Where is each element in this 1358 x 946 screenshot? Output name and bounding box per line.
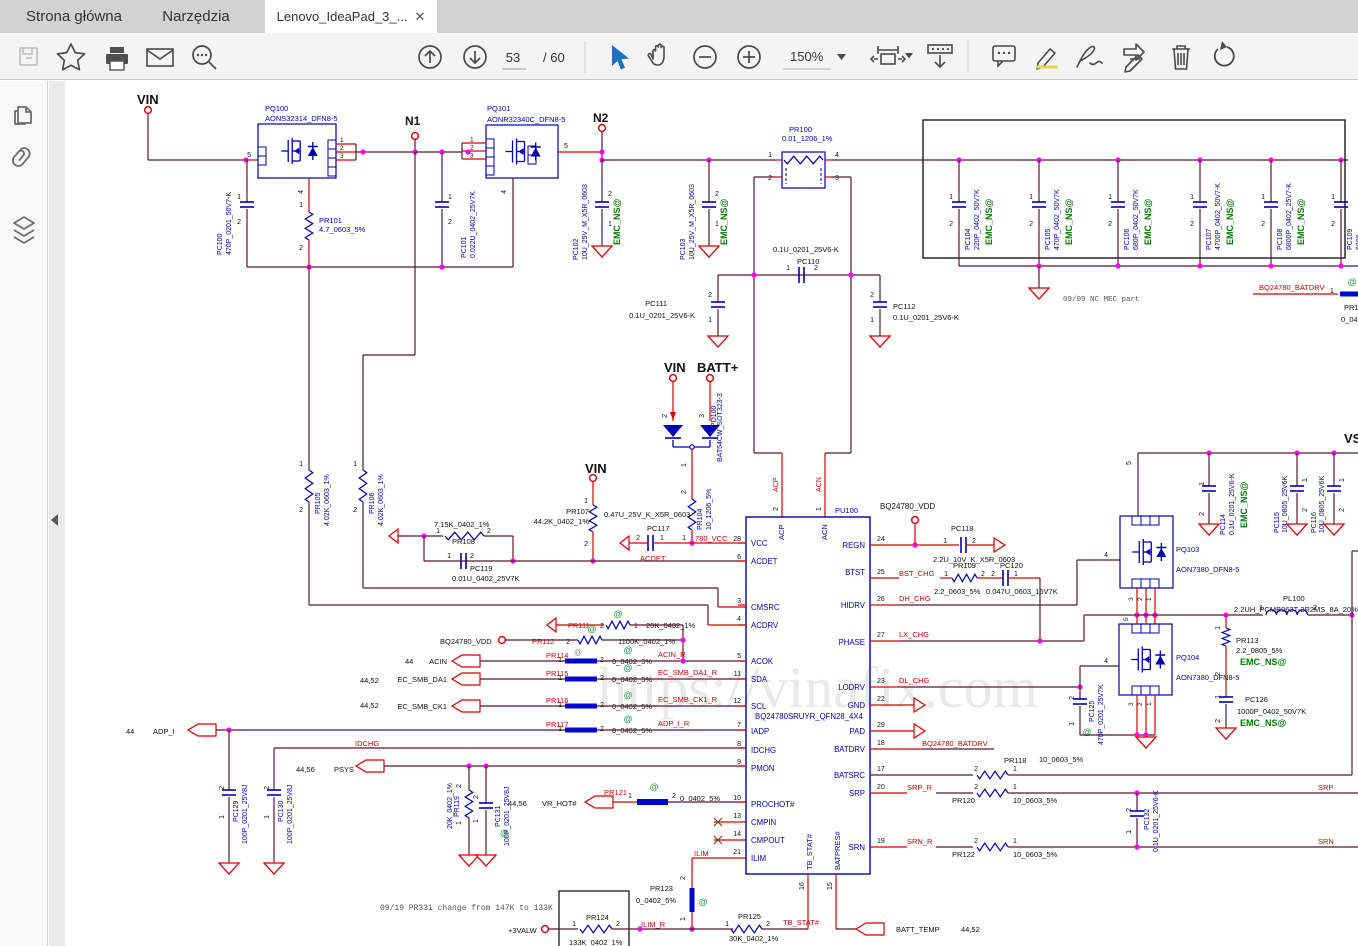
svg-text:AON7380_DFN8-5: AON7380_DFN8-5 [1176,673,1239,682]
svg-text:6800P_0402_25V7-K: 6800P_0402_25V7-K [1286,183,1293,250]
svg-text:SRP: SRP [1318,783,1333,792]
svg-text:PC102: PC102 [573,238,580,260]
svg-text:ACIN_R: ACIN_R [658,650,686,659]
svg-text:AONR32340C_DFN8-5: AONR32340C_DFN8-5 [487,115,565,124]
svg-text:PQ103: PQ103 [1176,545,1199,554]
svg-text:SDA: SDA [751,675,768,684]
svg-text:EMC_NS@: EMC_NS@ [1240,718,1287,728]
svg-text:BQ24780_VDD: BQ24780_VDD [880,502,935,511]
svg-text:BATT+: BATT+ [697,360,739,375]
svg-text:2: 2 [264,786,271,790]
svg-text:12: 12 [733,698,741,705]
svg-text:AONS32314_DFN8-5: AONS32314_DFN8-5 [265,114,338,123]
svg-text:4: 4 [298,190,305,194]
svg-text:PMON: PMON [751,764,774,773]
svg-text:ACDET: ACDET [751,557,778,566]
svg-text:PQ100: PQ100 [265,104,288,113]
svg-text:0_0402: 0_0402 [1341,315,1358,324]
svg-text:ACP: ACP [773,477,780,492]
svg-text:2: 2 [974,838,978,845]
svg-text:1: 1 [1014,571,1018,578]
svg-text:@: @ [574,648,582,657]
svg-text:EC_SMB_CK1: EC_SMB_CK1 [397,702,447,711]
svg-text:EMC_NS@: EMC_NS@ [612,198,622,245]
svg-text:PR122: PR122 [952,850,975,859]
svg-text:1: 1 [680,917,687,921]
svg-text:2: 2 [773,507,780,511]
svg-text:ILIM: ILIM [751,854,766,863]
svg-text:LODRV: LODRV [838,683,866,692]
svg-text:10_0603_5%: 10_0603_5% [1013,850,1058,859]
svg-text:4: 4 [737,616,741,623]
svg-text:1: 1 [682,535,686,542]
svg-text:DH_CHG: DH_CHG [899,594,931,603]
svg-text:0.1U_0201_25V6-K: 0.1U_0201_25V6-K [893,313,959,322]
svg-text:44: 44 [405,657,413,666]
svg-text:1: 1 [558,702,562,709]
svg-text:16: 16 [799,882,806,890]
svg-text:PAD: PAD [850,727,866,736]
svg-text:SRP: SRP [849,789,865,798]
svg-text:1: 1 [1069,722,1076,726]
svg-text:4: 4 [501,190,508,194]
svg-text:PR113: PR113 [1236,636,1258,645]
svg-text:PC130: PC130 [278,800,285,822]
svg-text:EMC_NS@: EMC_NS@ [1296,198,1306,245]
svg-text:SCL: SCL [751,702,767,711]
svg-text:3: 3 [1128,597,1135,601]
svg-text:1: 1 [725,921,729,928]
svg-text:2: 2 [470,553,474,560]
svg-text:4.7_0603_5%: 4.7_0603_5% [319,225,366,234]
svg-text:2: 2 [708,292,712,299]
svg-text:2: 2 [1069,696,1076,700]
svg-text:BAT54CW_SOT323-3: BAT54CW_SOT323-3 [717,393,724,462]
svg-text:1: 1 [1199,482,1206,486]
svg-text:PR124: PR124 [586,913,609,922]
svg-text:EC_SMB_DA1_R: EC_SMB_DA1_R [658,668,718,677]
svg-text:470P_0201_25V7K: 470P_0201_25V7K [1098,684,1105,745]
svg-text:6: 6 [737,554,741,561]
svg-text:SRN_R: SRN_R [907,837,933,846]
svg-text:1: 1 [708,317,712,324]
svg-text:1: 1 [786,265,790,272]
svg-text:2.2_0805_5%: 2.2_0805_5% [1236,646,1283,655]
svg-text:PR123: PR123 [650,884,673,893]
svg-text:@: @ [699,897,708,907]
svg-text:1: 1 [1302,478,1309,482]
svg-text:10_0603_5%: 10_0603_5% [1039,755,1084,764]
svg-text:2: 2 [1313,605,1317,612]
svg-text:BATDRV: BATDRV [834,745,866,754]
svg-text:PC114: PC114 [1220,514,1227,535]
svg-text:1: 1 [949,194,953,201]
svg-text:4: 4 [835,152,839,159]
svg-text:10_1206_5%: 10_1206_5% [706,489,713,530]
svg-text:REGN: REGN [842,541,865,550]
svg-text:100P_0201_25V8J: 100P_0201_25V8J [287,784,294,844]
svg-text:BQ24780SRUYR_QFN28_4X4: BQ24780SRUYR_QFN28_4X4 [755,712,864,721]
svg-text:1: 1 [473,819,480,823]
svg-text:1: 1 [1190,194,1194,201]
svg-text:7: 7 [737,722,741,729]
svg-text:44,52: 44,52 [961,925,980,934]
svg-text:PC100: PC100 [217,233,224,255]
svg-text:44: 44 [126,727,134,736]
svg-text:5: 5 [1123,617,1130,621]
svg-text:10U_25V_M_X5R_0603: 10U_25V_M_X5R_0603 [582,184,589,260]
svg-text:1: 1 [816,507,823,511]
svg-text:PQ104: PQ104 [1176,653,1199,662]
svg-text:1: 1 [237,194,241,201]
svg-text:0.1U_0201_25V6-K: 0.1U_0201_25V6-K [1153,790,1160,852]
svg-text:ILIM: ILIM [694,849,709,858]
svg-text:N2: N2 [593,111,609,125]
svg-text:1000P_0402_50V7K: 1000P_0402_50V7K [1237,707,1306,716]
svg-text:PC108: PC108 [1277,228,1284,250]
svg-text:26: 26 [877,596,885,603]
svg-text:PR119: PR119 [454,796,461,817]
svg-text:AON7380_DFN8-5: AON7380_DFN8-5 [1176,565,1239,574]
svg-text:0.1U_0201_25V6-K: 0.1U_0201_25V6-K [773,245,839,254]
svg-text:44,56: 44,56 [508,799,527,808]
svg-text:8: 8 [737,741,741,748]
svg-text:PC101: PC101 [461,236,468,258]
svg-text:1: 1 [447,553,451,560]
svg-text:BQ24780_VDD: BQ24780_VDD [440,637,492,646]
svg-text:PC118: PC118 [951,524,973,533]
svg-text:470P_0201_50V7-K: 470P_0201_50V7-K [226,192,233,255]
svg-text:2: 2 [608,191,612,198]
svg-text:PR112: PR112 [532,637,554,646]
svg-text:@: @ [1348,277,1357,287]
svg-text:25: 25 [877,569,885,576]
svg-text:EMC_NS@: EMC_NS@ [1143,198,1153,245]
svg-text:22: 22 [877,696,885,703]
svg-text:2: 2 [448,219,452,226]
svg-text:2: 2 [974,766,978,773]
svg-text:PR101: PR101 [319,216,342,225]
svg-text:ACP: ACP [777,525,786,540]
svg-text:EMC_NS@: EMC_NS@ [719,198,729,245]
svg-text:PC112: PC112 [893,302,915,311]
svg-text:BATPRES#: BATPRES# [833,831,842,870]
svg-text:PC107: PC107 [1206,228,1213,250]
svg-text:780_VCC: 780_VCC [695,534,728,543]
svg-text:PC131: PC131 [495,805,502,827]
svg-text:10_0603_5%: 10_0603_5% [1013,796,1058,805]
svg-text:1: 1 [943,538,947,545]
svg-text:4700P_0402_50V7-K: 4700P_0402_50V7-K [1215,183,1222,250]
svg-text:470P_0402_50V7K: 470P_0402_50V7K [1054,189,1061,250]
svg-text:2: 2 [237,219,241,226]
svg-text:44.2K_0402_1%: 44.2K_0402_1% [534,517,590,526]
svg-text:PR111: PR111 [568,621,590,630]
svg-text:2: 2 [1261,221,1265,228]
svg-text:PC132: PC132 [1144,808,1151,830]
svg-text:11: 11 [734,671,741,678]
svg-text:2: 2 [672,793,676,800]
svg-text:ACDET: ACDET [640,554,666,563]
svg-text:EMC_NS@: EMC_NS@ [984,198,994,245]
svg-text:VIN: VIN [664,360,686,375]
svg-text:5: 5 [247,152,251,159]
svg-text:PQ101: PQ101 [487,104,510,113]
svg-text:HIDRV: HIDRV [841,601,866,610]
svg-text:VCC: VCC [751,539,768,548]
svg-text:15: 15 [827,882,834,890]
svg-text:PC125: PC125 [1089,700,1096,722]
svg-text:PR104: PR104 [697,508,704,530]
svg-text:1: 1 [299,461,303,468]
svg-text:PR105: PR105 [315,492,322,514]
svg-text:0.022U_0402_25V7K: 0.022U_0402_25V7K [470,191,477,258]
svg-text:PR109: PR109 [953,561,976,570]
svg-text:0.1U_0201_25V6-K: 0.1U_0201_25V6-K [629,311,695,320]
svg-text:PC120: PC120 [1000,561,1023,570]
svg-text:1: 1 [1013,838,1017,845]
svg-text:IADP: IADP [751,727,769,736]
svg-text:TB_STAT#: TB_STAT# [805,833,814,870]
svg-text:LX_CHG: LX_CHG [899,630,929,639]
svg-text:3: 3 [835,175,839,182]
svg-text:2: 2 [1029,221,1033,228]
svg-text:PR118: PR118 [1004,756,1026,765]
svg-text:23: 23 [877,678,885,685]
svg-text:@: @ [614,609,623,619]
svg-text:@: @ [624,714,633,724]
svg-text:CMSRC: CMSRC [751,603,780,612]
svg-text:2: 2 [991,571,995,578]
svg-text:/ 60: / 60 [543,50,565,65]
svg-text:19: 19 [877,838,885,845]
svg-text:1: 1 [264,815,271,819]
svg-text:24: 24 [877,536,885,543]
svg-text:5: 5 [737,653,741,660]
svg-text:2: 2 [353,507,357,514]
svg-text:@: @ [624,663,633,673]
svg-text:2: 2 [600,623,604,630]
svg-text:1: 1 [558,657,562,664]
svg-text:2: 2 [584,541,588,548]
svg-text:@: @ [500,828,509,838]
svg-text:09/09 NC MEC part: 09/09 NC MEC part [1063,296,1140,304]
svg-text:3: 3 [1128,702,1135,706]
svg-text:PC109: PC109 [1347,228,1354,250]
svg-text:EMC_NS@: EMC_NS@ [1239,481,1249,528]
svg-text:BQ24780_BATDRV: BQ24780_BATDRV [922,739,988,748]
svg-text:ADP_I_R: ADP_I_R [658,719,690,728]
svg-text:10U_0805_25V6K: 10U_0805_25V6K [1282,475,1289,533]
svg-text:1: 1 [1013,784,1017,791]
svg-text:2: 2 [219,786,226,790]
svg-text:2: 2 [974,784,978,791]
svg-text:PROCHOT#: PROCHOT# [751,800,795,809]
svg-text:PC110: PC110 [797,257,819,266]
svg-text:2: 2 [473,795,480,799]
svg-text:PC103: PC103 [680,238,687,260]
svg-text:4: 4 [1104,658,1108,665]
svg-text:PR110: PR110 [1344,303,1358,312]
svg-text:1: 1 [219,815,226,819]
svg-text:N1: N1 [405,114,421,128]
svg-text:1: 1 [1146,702,1153,706]
svg-text:PC111: PC111 [645,299,667,308]
svg-text:1: 1 [944,571,948,578]
svg-text:1: 1 [768,152,772,159]
svg-text:10U_25V_M_X5R_0603: 10U_25V_M_X5R_0603 [689,184,696,260]
svg-text:14: 14 [733,831,741,838]
svg-text:150%: 150% [790,49,824,64]
svg-text:21: 21 [733,849,741,856]
svg-text:20K_0402_1%: 20K_0402_1% [447,783,454,829]
svg-text:44,52: 44,52 [360,701,379,710]
svg-text:1: 1 [584,498,588,505]
svg-text:2: 2 [299,507,303,514]
svg-text:3: 3 [699,414,706,418]
svg-text:2: 2 [1137,597,1144,601]
svg-text:PU100: PU100 [835,506,858,515]
svg-text:PC106: PC106 [1124,228,1131,250]
svg-text:2: 2 [1126,808,1133,812]
svg-text:SRP_R: SRP_R [907,783,933,792]
svg-text:1: 1 [1013,766,1017,773]
svg-text:VIN: VIN [585,461,607,476]
svg-text:IDCHG: IDCHG [751,746,776,755]
svg-text:133K_0402_1%: 133K_0402_1% [569,938,623,946]
svg-text:2: 2 [340,145,344,152]
svg-text:PC117: PC117 [647,524,669,533]
svg-text:ACDRV: ACDRV [751,621,779,630]
svg-text:BATT_TEMP: BATT_TEMP [896,925,940,934]
svg-text:2: 2 [715,191,719,198]
svg-text:4: 4 [1104,552,1108,559]
svg-text:1: 1 [353,461,357,468]
svg-text:BQ24780_BATDRV: BQ24780_BATDRV [1259,283,1325,292]
svg-text:2: 2 [949,221,953,228]
svg-text:680P_0402_50V7K: 680P_0402_50V7K [1133,189,1140,250]
svg-text:PC126: PC126 [1245,695,1268,704]
svg-text:VR_HOT#: VR_HOT# [542,799,577,808]
svg-text:4.02K_0603_1%: 4.02K_0603_1% [378,474,385,526]
svg-text:1: 1 [681,463,688,467]
svg-text:PHASE: PHASE [839,638,865,647]
svg-text:CMPIN: CMPIN [751,818,776,827]
svg-text:5: 5 [564,143,568,150]
svg-text:4.02K_0603_1%: 4.02K_0603_1% [324,474,331,526]
svg-text:17: 17 [877,766,885,773]
svg-text:1: 1 [470,137,474,144]
svg-text:PC119: PC119 [470,564,492,573]
svg-text:9: 9 [737,759,741,766]
svg-text:VS: VS [1344,431,1358,446]
svg-text:PC115: PC115 [1274,512,1281,533]
svg-text:1: 1 [870,317,874,324]
svg-text:2: 2 [662,414,669,418]
svg-text:1: 1 [340,137,344,144]
svg-text:2: 2 [1302,508,1309,512]
svg-text:2: 2 [870,292,874,299]
svg-text:1: 1 [1126,830,1133,834]
svg-text:1: 1 [1259,605,1263,612]
svg-text:ILIM_R: ILIM_R [641,920,666,929]
svg-text:PL100: PL100 [1283,594,1305,603]
svg-text:0.047U_0603_16V7K: 0.047U_0603_16V7K [986,587,1058,596]
svg-text:3: 3 [470,153,474,160]
svg-text:2: 2 [768,175,772,182]
svg-text:SRN: SRN [1318,837,1334,846]
svg-text:2: 2 [470,145,474,152]
svg-text:1: 1 [558,675,562,682]
svg-text:13: 13 [733,813,741,820]
svg-text:PR107: PR107 [566,507,589,516]
svg-text:30K_0402_1%: 30K_0402_1% [729,934,779,943]
svg-text:PR125: PR125 [738,912,761,921]
svg-text:2: 2 [680,876,687,880]
svg-text:1: 1 [1261,194,1265,201]
svg-text:BTST: BTST [845,568,865,577]
svg-text:0.01_1206_1%: 0.01_1206_1% [782,134,833,143]
svg-text:@: @ [588,624,597,634]
svg-text:@: @ [624,690,633,700]
svg-text:2: 2 [1108,221,1112,228]
svg-text:220P_0402_50V7K: 220P_0402_50V7K [974,189,981,250]
svg-text:10U_0805_25V6K: 10U_0805_25V6K [1319,475,1326,533]
svg-text:GND: GND [848,701,866,710]
svg-text:PSYS: PSYS [334,765,354,774]
svg-text:10: 10 [733,795,741,802]
svg-text:44,52: 44,52 [360,676,379,685]
svg-text:BATSRC: BATSRC [834,771,865,780]
svg-text:1: 1 [572,921,576,928]
svg-text:@: @ [650,782,659,792]
svg-text:1: 1 [628,793,632,800]
svg-text:2: 2 [766,921,770,928]
svg-text:53: 53 [506,50,520,65]
svg-text:TB_STAT#: TB_STAT# [783,918,820,927]
svg-text:2: 2 [972,538,976,545]
svg-text:2: 2 [636,535,640,542]
svg-text:EMC_NS@: EMC_NS@ [1225,198,1235,245]
svg-text:100P_0201_25V8J: 100P_0201_25V8J [242,784,249,844]
svg-text:PC116: PC116 [1311,512,1318,533]
svg-text:2: 2 [1190,221,1194,228]
svg-text:1: 1 [1108,194,1112,201]
svg-text:3: 3 [340,153,344,160]
svg-text:PR120: PR120 [952,796,975,805]
svg-text:28: 28 [733,536,741,543]
svg-text:20: 20 [877,784,885,791]
svg-text:ACN: ACN [816,477,823,492]
svg-text:ADP_I: ADP_I [153,727,175,736]
svg-text:3: 3 [737,598,741,605]
svg-text:2: 2 [1215,719,1222,723]
svg-text:2: 2 [487,528,491,535]
svg-text:1: 1 [1331,194,1335,201]
svg-text:1: 1 [1339,478,1346,482]
svg-text:2: 2 [814,265,818,272]
svg-text:09/19 PR331 change from 147K t: 09/19 PR331 change from 147K to 133K [380,904,553,913]
svg-text:5: 5 [1126,461,1133,465]
svg-text:2: 2 [981,571,985,578]
svg-text:PR108: PR108 [452,537,475,546]
svg-text:PC129: PC129 [233,800,240,822]
svg-text:1: 1 [1029,194,1033,201]
svg-text:1: 1 [634,623,638,630]
svg-text:VIN: VIN [137,92,159,107]
svg-text:0.47U_25V_K_X5R_0603: 0.47U_25V_K_X5R_0603 [604,510,690,519]
svg-text:2: 2 [456,784,463,788]
